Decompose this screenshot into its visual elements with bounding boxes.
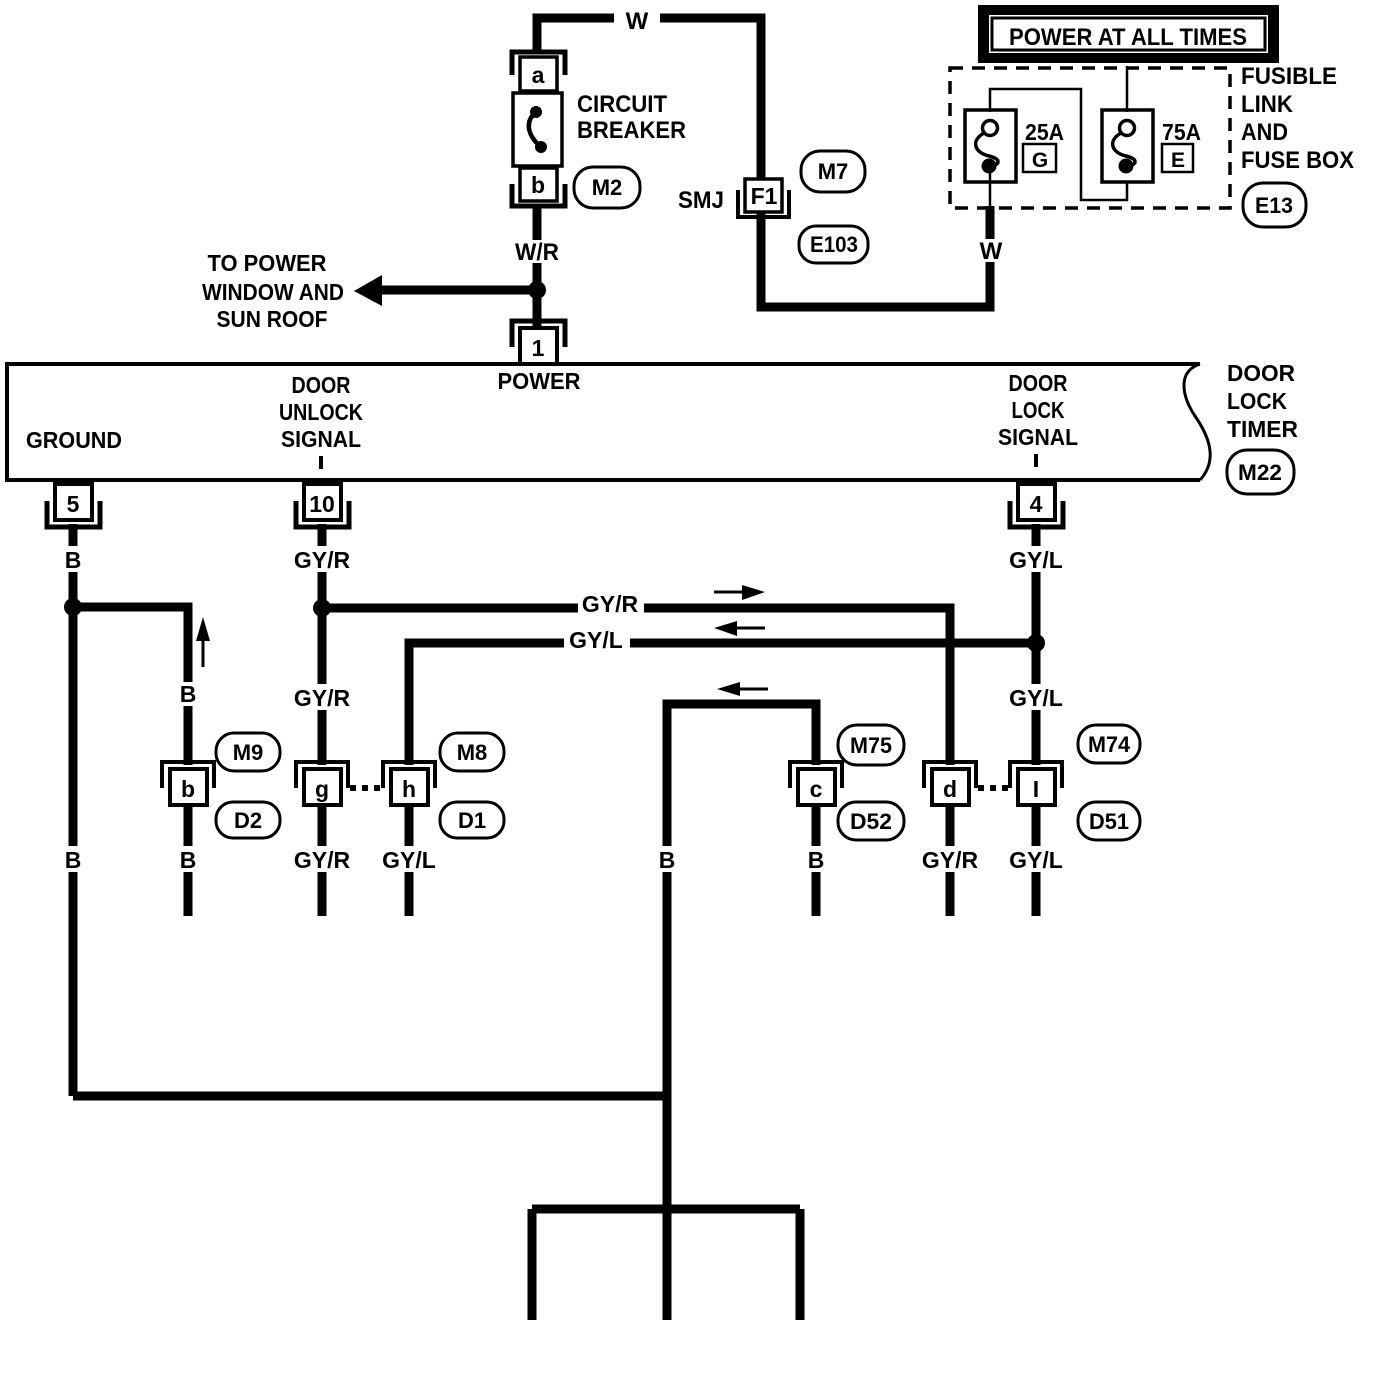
wire B branch to connector b (73, 607, 188, 765)
wire label B (ground wire upper) (58, 546, 88, 573)
wire label GY/L (on horizontal) (564, 627, 630, 653)
wire label GY/R (pin10 lower) (290, 684, 354, 711)
oval M22 (1227, 450, 1294, 494)
svg-text:GROUND: GROUND (26, 427, 122, 453)
svg-text:DOOR: DOOR (292, 372, 351, 398)
svg-text:B: B (180, 847, 197, 873)
svg-text:LINK: LINK (1241, 91, 1294, 118)
svg-text:W: W (980, 238, 1003, 265)
wire GY/L connector I to door lock switch pin 1 (1032, 806, 1041, 916)
svg-text:E13: E13 (1255, 193, 1293, 218)
connector F1 (SMJ) (738, 179, 789, 217)
svg-text:D52: D52 (850, 809, 892, 834)
junction GY/R (313, 599, 331, 617)
svg-text:M75: M75 (850, 733, 892, 758)
arrow to power window and sun roof (354, 275, 533, 306)
svg-text:a: a (532, 62, 545, 88)
svg-text:h: h (402, 776, 416, 802)
svg-text:D2: D2 (234, 808, 262, 833)
oval M75 (838, 725, 904, 765)
svg-text:BREAKER: BREAKER (577, 117, 686, 144)
wire B horizontal to connector c (667, 704, 816, 1096)
svg-text:D1: D1 (458, 808, 486, 833)
svg-text:GY/R: GY/R (922, 847, 979, 873)
svg-text:F1: F1 (751, 183, 778, 209)
label DOOR LOCK SIGNAL (998, 370, 1078, 467)
svg-text:GY/L: GY/L (382, 847, 436, 873)
wire label GY/L (pin4 lower) (1004, 684, 1068, 711)
POWER AT ALL TIMES banner (978, 5, 1279, 63)
wire B connector b to main switch pin 3 (184, 806, 193, 916)
svg-text:c: c (810, 776, 823, 802)
connector b (162, 762, 214, 805)
svg-text:POWER: POWER (498, 368, 581, 394)
junction GY/L (1027, 634, 1045, 652)
label TO POWER WINDOW AND SUN ROOF (202, 250, 344, 332)
svg-text:FUSE BOX: FUSE BOX (1241, 147, 1354, 174)
svg-text:M22: M22 (1238, 460, 1282, 485)
svg-text:M7: M7 (818, 159, 849, 184)
svg-text:SIGNAL: SIGNAL (998, 424, 1078, 450)
junction ground/branch (64, 598, 82, 616)
svg-text:W/R: W/R (515, 239, 559, 266)
wire B to ground M76 (663, 1209, 672, 1320)
svg-text:10: 10 (309, 491, 335, 517)
connector h (383, 762, 435, 805)
svg-text:POWER AT ALL TIMES: POWER AT ALL TIMES (1009, 24, 1247, 51)
svg-text:GY/L: GY/L (1009, 847, 1063, 873)
box G (1023, 144, 1056, 172)
wire label GY/R (on horizontal) (578, 591, 644, 617)
svg-text:GY/R: GY/R (294, 847, 351, 873)
direction arrow up (branch B) (196, 617, 210, 667)
connector 10 (door unlock signal) (296, 484, 349, 527)
wire label GY/L (h lower) (377, 846, 441, 873)
wire label GY/R (d lower) (918, 846, 982, 873)
wire label B (b lower) (174, 846, 202, 873)
svg-text:B: B (65, 847, 82, 873)
svg-text:M74: M74 (1088, 732, 1131, 757)
connector 1 (timer power) (512, 321, 565, 364)
svg-text:g: g (315, 776, 329, 802)
svg-text:d: d (943, 776, 957, 802)
wire B to ground M51 (528, 1209, 537, 1320)
wire B down from junction to ground junction (663, 1096, 672, 1209)
wire GY/L horizontal from connector h to GY/L vertical (409, 643, 1036, 765)
direction arrow left (GY/L line) (714, 621, 765, 636)
wire GY/L from timer pin 4 down to connector I (1032, 524, 1041, 765)
wire label GY/L (pin4 upper) (1004, 546, 1068, 573)
fusible link 75A (1102, 110, 1153, 182)
svg-text:25A: 25A (1025, 119, 1064, 145)
wire label W/R (506, 239, 568, 266)
connector c (790, 762, 842, 805)
svg-text:AND: AND (1241, 119, 1288, 146)
svg-text:4: 4 (1030, 491, 1043, 517)
connector I (1010, 762, 1062, 805)
thin wire fuse 25A bottom to W (989, 170, 992, 208)
svg-text:1: 1 (532, 335, 545, 361)
svg-text:I: I (1033, 776, 1039, 802)
svg-text:TO POWER: TO POWER (208, 250, 327, 276)
wire B ground bus horizontal (532, 1205, 800, 1214)
svg-text:5: 5 (67, 491, 80, 517)
oval D2 (216, 802, 280, 838)
oval E103 (799, 226, 868, 263)
svg-text:G: G (1032, 149, 1048, 172)
svg-text:M2: M2 (592, 175, 623, 200)
connector d (924, 762, 976, 805)
wire B connector c to door lock switch pin 2 (812, 806, 821, 916)
svg-text:E103: E103 (810, 232, 858, 257)
wire GY/R horizontal to connector d (322, 608, 950, 765)
svg-text:B: B (659, 847, 676, 873)
fusible link 25A (965, 110, 1016, 182)
wire W from circuit breaker to SMJ F1 (top loop) (537, 18, 761, 180)
svg-text:GY/L: GY/L (1009, 685, 1063, 711)
svg-text:B: B (180, 681, 197, 707)
svg-text:GY/R: GY/R (582, 591, 639, 617)
svg-text:SMJ: SMJ (678, 187, 724, 214)
wire label GY/L (I lower) (1004, 846, 1068, 873)
svg-text:DOOR: DOOR (1227, 360, 1295, 386)
label FUSIBLE LINK AND FUSE BOX (1241, 63, 1354, 174)
svg-text:UNLOCK: UNLOCK (279, 399, 363, 425)
circuit breaker M2 (512, 52, 565, 206)
svg-text:CIRCUIT: CIRCUIT (577, 91, 667, 118)
wire label B (c lower) (802, 846, 830, 873)
svg-text:M8: M8 (457, 740, 488, 765)
connector 4 (door lock signal) (1010, 484, 1063, 527)
wire GY/L connector h to main switch pin 6 (405, 806, 414, 916)
svg-text:M9: M9 (233, 740, 264, 765)
oval D51 (1078, 802, 1140, 840)
svg-text:WINDOW AND: WINDOW AND (202, 279, 344, 305)
svg-text:D51: D51 (1089, 809, 1129, 834)
wire GY/R connector d to door lock switch pin 3 (946, 806, 955, 916)
wire W/R circuit breaker to connector 1 (533, 206, 542, 330)
svg-text:DOOR: DOOR (1009, 370, 1068, 396)
svg-text:TIMER: TIMER (1227, 416, 1298, 442)
svg-text:GY/R: GY/R (294, 685, 351, 711)
oval M9 (216, 733, 280, 771)
oval M2 (574, 167, 640, 208)
svg-text:E: E (1171, 149, 1185, 172)
wire B to ground M77 (796, 1209, 805, 1320)
fusible link and fuse box (dashed) (950, 68, 1230, 208)
dotted link d-I (978, 785, 1012, 791)
oval E13 (1243, 183, 1306, 227)
svg-text:B: B (65, 547, 82, 573)
oval D52 (838, 802, 904, 840)
svg-text:b: b (531, 172, 545, 198)
door lock timer body M22 (7, 364, 1210, 480)
wire label B (ground wire lower) (58, 846, 88, 873)
junction on W/R wire (528, 281, 546, 299)
svg-text:FUSIBLE: FUSIBLE (1241, 63, 1337, 90)
svg-text:LOCK: LOCK (1012, 397, 1065, 423)
svg-text:b: b (181, 776, 195, 802)
label DOOR LOCK TIMER (1227, 360, 1298, 442)
svg-text:LOCK: LOCK (1227, 388, 1287, 414)
direction arrow left (B line) (717, 682, 768, 696)
oval M8 (440, 733, 504, 771)
oval D1 (440, 802, 504, 838)
wire label W (top) (614, 2, 660, 35)
thin wire fuse 75A top feed (1126, 66, 1129, 112)
oval M7 (801, 151, 865, 192)
label DOOR UNLOCK SIGNAL (279, 372, 363, 469)
wire label W (right, near fuse box) (974, 238, 1008, 265)
wire W from F1 to fuse box (761, 206, 990, 307)
svg-text:GY/L: GY/L (1009, 547, 1063, 573)
svg-text:GY/R: GY/R (294, 547, 351, 573)
svg-text:GY/L: GY/L (569, 627, 623, 653)
svg-text:SUN ROOF: SUN ROOF (217, 306, 328, 332)
dotted link g-h (350, 785, 384, 791)
wire label GY/R (pin10 upper) (290, 546, 354, 573)
svg-text:W: W (626, 8, 649, 35)
svg-text:SIGNAL: SIGNAL (281, 426, 361, 452)
wire label B (branch) (174, 681, 202, 707)
wire GY/R from timer pin 10 down to connector g (318, 524, 327, 765)
wire GY/R connector g to main switch pin 5 (318, 806, 327, 916)
box E (1162, 144, 1193, 172)
thin wire fuse 25A top link (990, 89, 1127, 200)
svg-text:75A: 75A (1162, 119, 1201, 145)
direction arrow right (GY/R line) (714, 585, 765, 600)
connector g (296, 762, 348, 805)
wire B ground: timer pin 5 down and across to junction (73, 524, 667, 1096)
wire label B (long B wire) (652, 846, 682, 873)
svg-text:B: B (808, 847, 825, 873)
label CIRCUIT BREAKER (577, 91, 686, 144)
connector 5 (timer ground) (47, 484, 100, 527)
oval M74 (1078, 725, 1140, 763)
wire label GY/R (g lower) (290, 846, 354, 873)
